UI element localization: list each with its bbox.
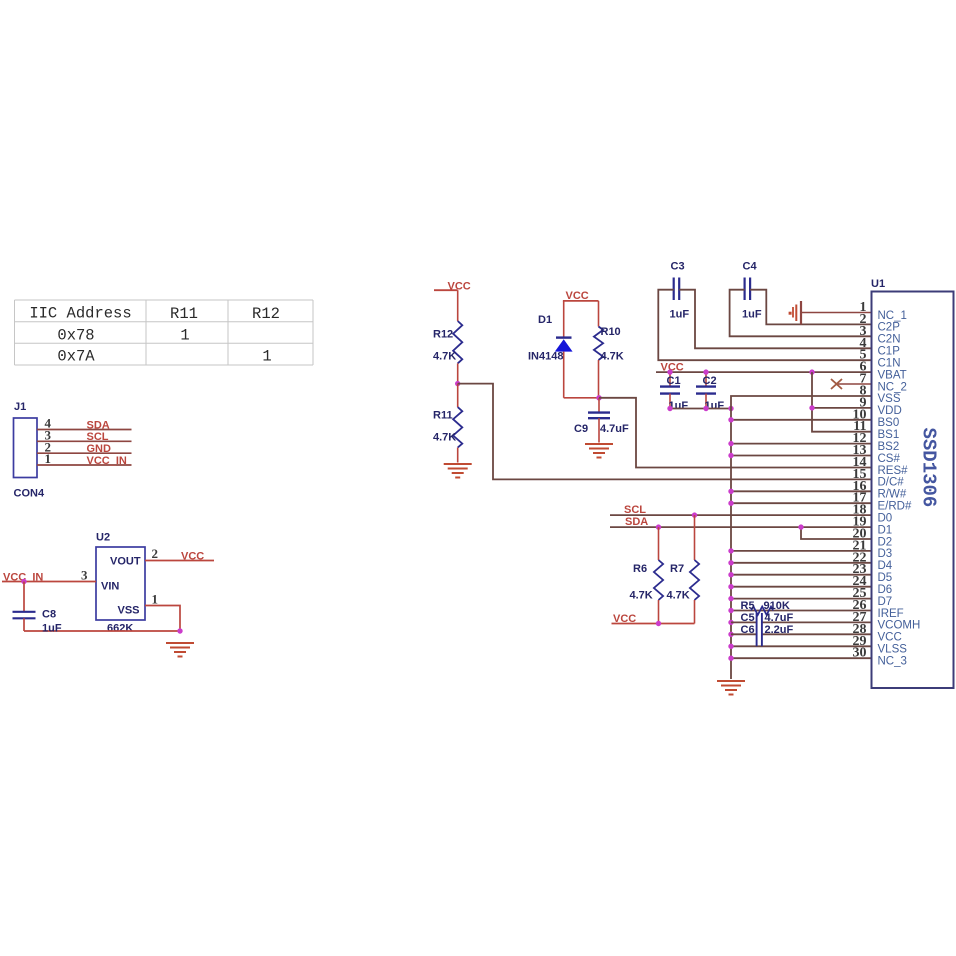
- svg-text:1: 1: [45, 451, 52, 466]
- svg-text:662K: 662K: [107, 623, 133, 635]
- svg-text:C9: C9: [574, 423, 588, 435]
- svg-text:GND: GND: [87, 443, 112, 455]
- svg-text:2: 2: [152, 546, 159, 561]
- svg-text:CS#: CS#: [878, 453, 901, 465]
- svg-text:D0: D0: [878, 512, 893, 524]
- svg-text:D5: D5: [878, 572, 893, 584]
- svg-text:R5: R5: [741, 600, 755, 612]
- svg-text:SDA: SDA: [87, 419, 110, 431]
- svg-text:U2: U2: [96, 532, 110, 544]
- svg-text:U1: U1: [871, 278, 885, 290]
- svg-text:4.7K: 4.7K: [433, 432, 456, 444]
- svg-text:0x7A: 0x7A: [57, 348, 95, 366]
- svg-text:4.7K: 4.7K: [667, 590, 690, 602]
- svg-text:C1N: C1N: [878, 358, 901, 370]
- svg-text:R11: R11: [433, 410, 453, 422]
- svg-text:NC_1: NC_1: [878, 310, 907, 322]
- svg-text:C3: C3: [671, 261, 685, 273]
- svg-text:IREF: IREF: [878, 608, 904, 620]
- svg-text:R12: R12: [252, 305, 280, 323]
- svg-text:VSS: VSS: [878, 393, 901, 405]
- svg-text:C1: C1: [667, 375, 681, 387]
- svg-text:910K: 910K: [764, 600, 790, 612]
- svg-text:VCC: VCC: [181, 551, 204, 563]
- svg-text:D3: D3: [878, 548, 893, 560]
- svg-text:1: 1: [180, 327, 189, 345]
- svg-text:CON4: CON4: [14, 488, 45, 500]
- svg-text:1: 1: [152, 592, 159, 607]
- svg-text:D/C#: D/C#: [878, 477, 905, 489]
- svg-text:4.7uF: 4.7uF: [765, 612, 794, 624]
- svg-text:IN4148: IN4148: [528, 351, 563, 363]
- svg-text:VLSS: VLSS: [878, 644, 908, 656]
- svg-text:C2N: C2N: [878, 334, 901, 346]
- svg-text:C6: C6: [741, 624, 755, 636]
- svg-text:SCL: SCL: [624, 504, 646, 516]
- svg-text:R10: R10: [601, 326, 621, 338]
- svg-text:VBAT: VBAT: [878, 369, 907, 381]
- svg-text:VDD: VDD: [878, 405, 902, 417]
- svg-text:1uF: 1uF: [742, 309, 762, 321]
- svg-text:D6: D6: [878, 584, 893, 596]
- svg-text:C2: C2: [703, 375, 717, 387]
- svg-text:D7: D7: [878, 596, 893, 608]
- svg-text:C4: C4: [743, 261, 758, 273]
- svg-text:D1: D1: [878, 524, 893, 536]
- svg-text:SDA: SDA: [625, 516, 648, 528]
- svg-text:2.2uF: 2.2uF: [765, 624, 794, 636]
- svg-text:VIN: VIN: [101, 581, 119, 593]
- svg-text:D4: D4: [878, 560, 893, 572]
- svg-text:VCOMH: VCOMH: [878, 620, 921, 632]
- svg-text:VSS: VSS: [118, 605, 140, 617]
- svg-text:VCC_IN: VCC_IN: [87, 455, 127, 467]
- svg-text:D2: D2: [878, 536, 893, 548]
- svg-text:C5: C5: [741, 612, 755, 624]
- svg-text:4.7K: 4.7K: [630, 590, 653, 602]
- svg-text:VCC: VCC: [878, 632, 902, 644]
- svg-text:NC_2: NC_2: [878, 381, 907, 393]
- svg-text:NC_3: NC_3: [878, 656, 907, 668]
- svg-text:4.7K: 4.7K: [601, 351, 624, 363]
- svg-text:1uF: 1uF: [670, 309, 690, 321]
- svg-text:1uF: 1uF: [42, 623, 62, 635]
- svg-text:IIC Address: IIC Address: [29, 305, 131, 323]
- svg-text:E/RD#: E/RD#: [878, 501, 912, 513]
- svg-text:SCL: SCL: [87, 431, 109, 443]
- svg-text:4.7K: 4.7K: [433, 351, 456, 363]
- svg-text:C1P: C1P: [878, 346, 901, 358]
- svg-text:R/W#: R/W#: [878, 489, 907, 501]
- svg-text:BS1: BS1: [878, 429, 900, 441]
- svg-text:BS2: BS2: [878, 441, 900, 453]
- svg-text:SSD1306: SSD1306: [918, 428, 940, 508]
- svg-text:RES#: RES#: [878, 465, 909, 477]
- svg-text:4.7uF: 4.7uF: [600, 423, 629, 435]
- svg-text:R11: R11: [170, 305, 198, 323]
- svg-text:1: 1: [262, 348, 271, 366]
- svg-text:0x78: 0x78: [57, 327, 94, 345]
- svg-text:BS0: BS0: [878, 417, 900, 429]
- svg-text:J1: J1: [14, 401, 26, 413]
- svg-text:C8: C8: [42, 609, 56, 621]
- svg-text:R7: R7: [670, 563, 684, 575]
- svg-text:C2P: C2P: [878, 322, 901, 334]
- svg-text:D1: D1: [538, 314, 552, 326]
- svg-text:VOUT: VOUT: [110, 556, 141, 568]
- svg-text:VCC: VCC: [613, 613, 636, 625]
- svg-text:30: 30: [853, 646, 867, 661]
- svg-text:R12: R12: [433, 329, 453, 341]
- svg-text:R6: R6: [633, 563, 647, 575]
- svg-text:3: 3: [81, 568, 88, 583]
